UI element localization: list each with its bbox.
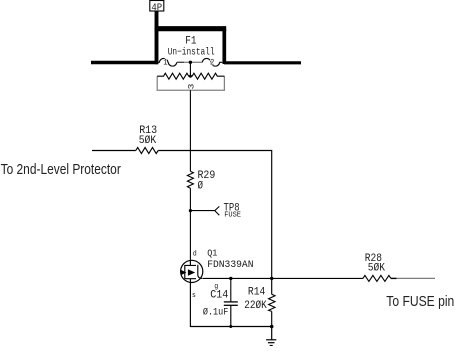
svg-text:s: s [192,292,196,300]
connector 4P box [150,1,164,12]
svg-text:2: 2 [210,59,214,68]
wire R29 to Q1 drain [189,188,191,260]
svg-text:F1: F1 [185,36,196,48]
resistor R13 zigzag [136,148,158,154]
resistor R14 top lead [271,278,273,294]
wire fuse middle dark segment [177,61,184,63]
resistor R14 bottom lead [271,311,273,326]
wire R28 right lead [391,277,397,279]
svg-text:Ø: Ø [198,181,204,193]
wire 4P stub + thick staple left vertical [155,11,159,64]
capacitor C14 bottom lead [230,305,232,327]
wire top-left thick wire [91,61,158,65]
wire off-page grey stub [397,277,435,279]
ground symbol [266,327,276,346]
resistor R14 zigzag [269,294,275,311]
svg-text:FDN339AN: FDN339AN [207,259,253,271]
wire Q1 source down [189,283,191,328]
junction C14 bottom [229,325,232,328]
junction R14 top [270,277,273,280]
svg-text:Q1: Q1 [207,248,217,259]
wire gate rail [203,277,363,279]
wire R13 right lead to corner [158,151,272,279]
svg-text:R14: R14 [248,286,266,298]
fuse element pin1 squiggle [159,58,177,66]
fuse element pin2 squiggle [202,58,222,66]
svg-text:3: 3 [187,83,196,89]
junction TP8 [189,209,192,212]
resistor R28 zigzag [363,275,391,281]
svg-text:Un−install: Un−install [168,47,215,59]
svg-text:To 2nd-Level Protector: To 2nd-Level Protector [1,162,121,178]
wire top-right thick wire [224,61,301,64]
svg-text:5ØK: 5ØK [139,135,157,147]
wire source rail bottom [190,326,271,328]
transistor Q1 internals [185,260,203,282]
svg-text:C14: C14 [210,290,228,302]
wire fuse pin3 down to R29 [189,90,191,171]
svg-text:5ØK: 5ØK [368,263,386,275]
svg-text:1: 1 [163,59,167,68]
wire R13 left lead [92,150,136,152]
junction fuse center [189,61,192,64]
svg-text:FUSE: FUSE [224,211,241,219]
svg-text:To FUSE pin: To FUSE pin [386,294,454,310]
wire thick staple top bar [155,26,227,31]
capacitor C14 plates [224,301,238,303]
capacitor C14 top lead [230,278,232,301]
transistor Q1 arrow 1 [181,270,187,275]
junction ground node [270,325,274,329]
resistor R29 zigzag [187,171,193,188]
junction C14 top [229,277,232,280]
fuse internal resistor left [157,73,190,79]
wire thick staple right vertical [222,29,226,64]
transistor Q1 arrow 2 [188,269,195,275]
fuse body box (open top U) [157,76,224,90]
fuse internal resistor right [190,73,224,79]
svg-text:22ØK: 22ØK [244,300,267,312]
svg-text:Ø.1uF: Ø.1uF [203,307,228,319]
svg-text:d: d [193,250,197,258]
junction fuse resistor center [189,75,192,78]
testpoint TP8 probe line [190,206,219,215]
transistor Q1 circle [181,260,203,282]
wire fuse center drop [189,62,191,76]
wire fuse middle grey segment [184,61,202,63]
